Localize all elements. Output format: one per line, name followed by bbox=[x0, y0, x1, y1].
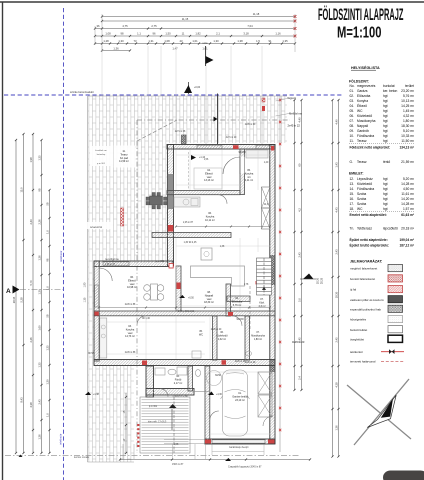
svg-text:4,40: 4,40 bbox=[297, 117, 301, 123]
svg-text:vasbeton pillér és koszorú: vasbeton pillér és koszorú bbox=[350, 298, 384, 302]
ramp continuation lines bbox=[122, 444, 124, 459]
red wall accent stair base bbox=[121, 208, 124, 226]
terrace annotation texts bbox=[90, 146, 113, 166]
svg-text:3,18: 3,18 bbox=[243, 32, 249, 36]
svg-text:1,46 p 301 1,61: 1,46 p 301 1,61 bbox=[178, 311, 195, 313]
property line horizontal (telekhatar) bbox=[4, 94, 344, 96]
svg-text:1,38: 1,38 bbox=[237, 39, 243, 43]
svg-text:28,35: 28,35 bbox=[321, 277, 324, 284]
right dimension chain outer bbox=[332, 100, 334, 457]
car in garage bbox=[221, 370, 250, 436]
garage glazing panels bbox=[258, 372, 272, 394]
top dimension chain bbox=[94, 12, 296, 51]
interior wall dining south bbox=[167, 191, 240, 195]
chimney stub bbox=[182, 135, 187, 145]
red accent step wall bbox=[142, 361, 147, 366]
svg-text:1,36: 1,36 bbox=[334, 425, 338, 431]
wall right exterior bbox=[270, 145, 275, 444]
red accent garage corner L bbox=[205, 440, 211, 444]
svg-text:tervezett határvonal: tervezett határvonal bbox=[350, 360, 376, 364]
svg-text:1,38: 1,38 bbox=[220, 246, 225, 248]
svg-text:Gardrób: Gardrób bbox=[357, 129, 369, 133]
garage door opening bbox=[212, 440, 265, 443]
sheet left border bbox=[2, 2, 4, 480]
svg-text:p.m 301: p.m 301 bbox=[97, 163, 106, 165]
svg-text:1,01: 1,01 bbox=[192, 39, 198, 43]
door opening kitchen east wall bbox=[240, 157, 244, 174]
svg-text:16.: 16. bbox=[350, 197, 355, 201]
dashed line under stairs bbox=[249, 286, 251, 330]
svg-text:+1,10: +1,10 bbox=[199, 156, 206, 159]
svg-text:FÖLDSZINT:: FÖLDSZINT: bbox=[349, 78, 369, 83]
svg-text:5,70: 5,70 bbox=[29, 280, 33, 286]
svg-text:hgt: hgt bbox=[383, 114, 388, 118]
svg-text:Terasz: Terasz bbox=[357, 160, 367, 164]
svg-text:10,11 m²: 10,11 m² bbox=[205, 219, 215, 222]
svg-text:WC: WC bbox=[199, 333, 203, 336]
svg-text:23,20 m²: 23,20 m² bbox=[401, 89, 415, 93]
svg-text:tetőkontúr: tetőkontúr bbox=[350, 350, 363, 354]
svg-text:14.: 14. bbox=[350, 187, 355, 191]
garage turning circle bbox=[207, 371, 222, 386]
svg-text:hgt: hgt bbox=[383, 109, 388, 113]
svg-text:8,43: 8,43 bbox=[19, 397, 23, 403]
svg-text:Épület nettó alapterülete:: Épület nettó alapterülete: bbox=[350, 237, 388, 242]
svg-text:Lépcsőház: Lépcsőház bbox=[357, 177, 373, 181]
svg-text:1,30: 1,30 bbox=[118, 39, 124, 43]
svg-text:4x71 in 20: 4x71 in 20 bbox=[226, 137, 237, 139]
svg-text:2,17 m²: 2,17 m² bbox=[174, 382, 183, 385]
svg-text:burkolt felület: burkolt felület bbox=[350, 328, 367, 332]
svg-text:kisablak vm: kisablak vm bbox=[95, 150, 107, 152]
svg-text:Étkező: Étkező bbox=[357, 103, 367, 108]
svg-text:4,32 m²: 4,32 m² bbox=[403, 114, 415, 118]
svg-text:utca: utca bbox=[203, 41, 208, 45]
svg-text:134,13 m²: 134,13 m² bbox=[399, 145, 414, 149]
svg-text:2,1: 2,1 bbox=[216, 32, 220, 36]
svg-text:Tetőterasz: Tetőterasz bbox=[357, 226, 372, 230]
wall bottom-left of house bbox=[94, 360, 275, 366]
red accent hall bbox=[228, 312, 233, 316]
svg-text:Vejpont: Vejpont bbox=[287, 96, 296, 100]
door arc left room bbox=[99, 268, 112, 281]
svg-text:2,43: 2,43 bbox=[37, 399, 41, 405]
svg-text:18,30: 18,30 bbox=[317, 277, 320, 284]
svg-text:ker.völgd ma: ker.völgd ma bbox=[105, 258, 119, 261]
svg-text:WC: WC bbox=[357, 109, 363, 113]
svg-text:04.: 04. bbox=[350, 104, 355, 108]
svg-text:új fal: új fal bbox=[350, 288, 356, 292]
svg-text:hgt: hgt bbox=[383, 197, 388, 201]
red dashed mark on ramp bbox=[137, 424, 139, 426]
svg-text:2,43: 2,43 bbox=[29, 219, 33, 225]
svg-text:1,08: 1,08 bbox=[105, 32, 111, 36]
svg-text:No.: No. bbox=[350, 84, 355, 88]
svg-text:1,0: 1,0 bbox=[45, 286, 49, 290]
interior wall kitchen south bbox=[152, 233, 231, 238]
svg-text:2x71 in 08: 2x71 in 08 bbox=[175, 131, 186, 133]
svg-text:Garázs: Garázs bbox=[357, 89, 368, 93]
north arrow cross lines bbox=[354, 379, 409, 445]
svg-text:1,35: 1,35 bbox=[45, 345, 49, 351]
svg-text:Fürdőszoba: Fürdőszoba bbox=[357, 134, 374, 138]
svg-text:4,38: 4,38 bbox=[29, 402, 33, 408]
svg-text:90/238: 90/238 bbox=[238, 152, 246, 154]
dining centerline dashed bbox=[188, 152, 190, 190]
svg-text:meglévő falszerkezet: meglévő falszerkezet bbox=[350, 267, 377, 271]
svg-text:1,1: 1,1 bbox=[137, 32, 141, 36]
svg-text:1,90: 1,90 bbox=[84, 282, 87, 287]
svg-text:1,28: 1,28 bbox=[103, 39, 109, 43]
svg-text:1,35: 1,35 bbox=[37, 155, 41, 161]
dining chairs circles bbox=[144, 285, 151, 292]
svg-text:Garázskapu beépít: Garázskapu beépít bbox=[229, 446, 249, 449]
svg-text:1,16: 1,16 bbox=[275, 32, 281, 36]
svg-text:4,75: 4,75 bbox=[122, 24, 128, 28]
svg-text:2x45 in 29: 2x45 in 29 bbox=[235, 361, 246, 363]
site boundary south dashdot bbox=[5, 454, 300, 456]
exterior ramp stairs bbox=[140, 397, 190, 453]
svg-text:+0,00: +0,00 bbox=[194, 86, 201, 89]
svg-text:Szoba: Szoba bbox=[357, 202, 366, 206]
svg-text:2,26: 2,26 bbox=[29, 337, 33, 343]
svg-text:EMELET:: EMELET: bbox=[349, 172, 364, 176]
roof overhang dashed vertical bbox=[136, 120, 138, 453]
svg-text:15.: 15. bbox=[350, 192, 355, 196]
svg-text:M=1:100: M=1:100 bbox=[337, 22, 382, 41]
level marker near terrace top bbox=[188, 82, 190, 94]
red accent band wall bbox=[222, 360, 227, 365]
svg-text:06.: 06. bbox=[350, 114, 355, 118]
svg-text:Szoba: Szoba bbox=[357, 197, 366, 201]
svg-text:1,50: 1,50 bbox=[165, 32, 171, 36]
terrace paving hatch left patch bbox=[88, 143, 167, 263]
svg-text:1,35: 1,35 bbox=[37, 362, 41, 368]
red accent top right wall bbox=[262, 98, 265, 102]
ramp side dimension bbox=[125, 393, 127, 453]
red accent top wall middle bbox=[233, 145, 239, 149]
door arc kitchen bbox=[137, 316, 146, 325]
entry level arrow bbox=[191, 155, 196, 160]
svg-text:1,35: 1,35 bbox=[282, 39, 288, 43]
witness drops through hatch bbox=[175, 96, 177, 144]
svg-text:5,76 m²: 5,76 m² bbox=[233, 304, 242, 307]
left dimension chain bbox=[12, 133, 51, 454]
staircase interior bbox=[257, 258, 272, 295]
terrace paving hatch left strip bbox=[88, 263, 95, 366]
svg-text:11,61 m²: 11,61 m² bbox=[401, 192, 415, 196]
wall left upper dark segment bbox=[168, 174, 174, 209]
stub wall near stairs bbox=[227, 296, 250, 302]
svg-text:43: 43 bbox=[180, 39, 183, 43]
bath fixtures bbox=[155, 368, 165, 375]
svg-text:13.: 13. bbox=[350, 182, 355, 186]
svg-text:21,59 m²: 21,59 m² bbox=[401, 160, 415, 164]
svg-text:hgt: hgt bbox=[383, 99, 388, 103]
svg-text:Földszint nettó alapterület:: Földszint nettó alapterület: bbox=[350, 145, 391, 149]
svg-text:11,15: 11,15 bbox=[182, 17, 189, 21]
kitchen counter lower room bbox=[100, 318, 107, 358]
svg-text:61,63 m²: 61,63 m² bbox=[401, 213, 414, 217]
svg-text:03.: 03. bbox=[350, 99, 355, 103]
svg-text:hgt: hgt bbox=[383, 129, 388, 133]
sheet top border bbox=[0, 1, 424, 3]
interior dim line lower bbox=[99, 307, 270, 309]
witness drops to plan bbox=[101, 46, 103, 96]
svg-text:2,75: 2,75 bbox=[151, 24, 157, 28]
window sill top 2 bbox=[256, 145, 274, 148]
svg-text:Szoba: Szoba bbox=[357, 192, 366, 196]
door arc dining bbox=[218, 195, 227, 204]
svg-text:átm.mélt. 17x16,5: átm.mélt. 17x16,5 bbox=[148, 421, 167, 424]
svg-text:2,43: 2,43 bbox=[334, 249, 338, 255]
svg-text:hgt: hgt bbox=[383, 124, 388, 128]
svg-text:15,0: 15,0 bbox=[19, 187, 23, 193]
svg-text:11,18: 11,18 bbox=[253, 12, 260, 16]
svg-text:23,10 m²: 23,10 m² bbox=[235, 399, 245, 402]
svg-text:60/90: 60/90 bbox=[215, 375, 221, 377]
door arc hall bbox=[232, 316, 242, 326]
svg-text:28,35: 28,35 bbox=[12, 296, 16, 303]
svg-text:JELMAGYARÁZAT:: JELMAGYARÁZAT: bbox=[350, 258, 382, 263]
svg-text:lépcsőtető: lépcsőtető bbox=[383, 226, 398, 230]
svg-text:73: 73 bbox=[134, 39, 137, 43]
svg-text:p.m 301: p.m 301 bbox=[156, 261, 165, 263]
level marker bottom terrace bbox=[85, 392, 91, 395]
svg-text:A: A bbox=[6, 288, 11, 295]
svg-text:14,73 m²: 14,73 m² bbox=[125, 335, 135, 338]
svg-text:2x45 in 29: 2x45 in 29 bbox=[245, 362, 256, 364]
svg-text:10,98 m²: 10,98 m² bbox=[127, 286, 137, 289]
svg-text:5,0: 5,0 bbox=[297, 298, 301, 302]
svg-text:burkolat: burkolat bbox=[383, 84, 395, 88]
svg-text:1,57 m²: 1,57 m² bbox=[403, 207, 415, 211]
svg-text:5,76 m²: 5,76 m² bbox=[403, 94, 415, 98]
svg-text:17.: 17. bbox=[350, 202, 355, 206]
svg-text:1,36: 1,36 bbox=[37, 434, 41, 440]
svg-text:expandált polisztirol hab: expandált polisztirol hab bbox=[350, 307, 381, 311]
wall bottom exterior / garage front bbox=[205, 439, 275, 444]
svg-text:hgt: hgt bbox=[383, 94, 388, 98]
svg-text:2x45 in 88: 2x45 in 88 bbox=[125, 304, 136, 306]
svg-text:1,30: 1,30 bbox=[213, 39, 219, 43]
svg-text:1,08: 1,08 bbox=[164, 39, 170, 43]
interior wall living south bbox=[94, 311, 275, 316]
svg-text:Terasz: Terasz bbox=[357, 139, 367, 143]
terrace dining furniture bbox=[146, 193, 167, 209]
svg-text:02.: 02. bbox=[350, 94, 355, 98]
svg-text:90 58: 90 58 bbox=[88, 353, 94, 355]
garage level marker bbox=[208, 392, 214, 396]
glazing X panels east wall bbox=[262, 187, 271, 208]
dining table top room bbox=[194, 168, 222, 189]
svg-text:tervezett fal: tervezett fal bbox=[90, 226, 102, 229]
svg-text:telekhatár: telekhatár bbox=[59, 250, 63, 262]
svg-text:10.: 10. bbox=[350, 134, 355, 138]
section line entrance axis bbox=[217, 94, 219, 145]
svg-text:hgt: hgt bbox=[383, 192, 388, 196]
svg-text:1,30: 1,30 bbox=[45, 379, 49, 385]
svg-text:1,0: 1,0 bbox=[45, 230, 49, 234]
svg-text:2x45 in 60: 2x45 in 60 bbox=[245, 124, 256, 126]
svg-text:10,13 m²: 10,13 m² bbox=[401, 99, 415, 103]
svg-text:kerítés vonala: kerítés vonala bbox=[74, 456, 90, 459]
interior wall kitchen east bbox=[240, 149, 245, 195]
bathroom wall vertical bbox=[146, 366, 154, 397]
svg-text:36: 36 bbox=[97, 24, 100, 28]
svg-text:Közlekedő: Közlekedő bbox=[357, 182, 372, 186]
svg-text:2x45 in 20: 2x45 in 20 bbox=[211, 329, 222, 331]
garage apron bbox=[212, 445, 264, 452]
svg-text:10,33 m²: 10,33 m² bbox=[401, 134, 415, 138]
interior wall garage west bbox=[205, 366, 210, 444]
svg-text:0x45 in 23: 0x45 in 23 bbox=[292, 340, 305, 344]
svg-text:hgt: hgt bbox=[383, 134, 388, 138]
svg-text:Mell.fal ms: Mell.fal ms bbox=[289, 112, 302, 116]
svg-text:1,56: 1,56 bbox=[204, 159, 209, 161]
svg-text:1,68: 1,68 bbox=[174, 444, 179, 446]
svg-text:betonlap: betonlap bbox=[97, 153, 106, 156]
svg-text:2,4: 2,4 bbox=[297, 376, 301, 380]
svg-text:1,36: 1,36 bbox=[113, 46, 119, 50]
svg-text:terület: terület bbox=[405, 84, 414, 88]
svg-text:üvegfelület: üvegfelület bbox=[350, 337, 364, 341]
svg-text:2,26: 2,26 bbox=[37, 219, 41, 225]
svg-text:18,30 m²: 18,30 m² bbox=[204, 301, 214, 304]
svg-text:hőszigetelés: hőszigetelés bbox=[350, 318, 367, 322]
svg-text:Konyha: Konyha bbox=[357, 99, 368, 103]
svg-text:hgt: hgt bbox=[383, 202, 388, 206]
svg-text:ker. beton: ker. beton bbox=[383, 89, 397, 93]
svg-text:hgt: hgt bbox=[383, 207, 388, 211]
svg-text:megnevezés: megnevezés bbox=[357, 84, 376, 88]
svg-text:96: 96 bbox=[153, 32, 156, 36]
svg-text:1,80 m²: 1,80 m² bbox=[254, 338, 262, 341]
wall wc east bbox=[213, 316, 218, 360]
svg-text:HELYISÉGLISTA: HELYISÉGLISTA bbox=[351, 65, 380, 70]
svg-text:187,12 m²: 187,12 m² bbox=[399, 244, 414, 248]
svg-text:1,31: 1,31 bbox=[148, 39, 154, 43]
svg-text:7,04: 7,04 bbox=[247, 24, 253, 28]
terrace paving hatch bottom left bbox=[88, 366, 134, 462]
window sill top 1 bbox=[197, 145, 222, 148]
witness lines interior bbox=[175, 150, 177, 190]
roof overhang dashed horizontal bbox=[137, 119, 290, 121]
top chain red end markers bbox=[294, 15, 297, 18]
wall step horizontal bbox=[94, 261, 173, 267]
svg-text:+4,36: +4,36 bbox=[216, 394, 223, 396]
svg-text:hgt: hgt bbox=[383, 187, 388, 191]
level marker nappali bbox=[179, 295, 185, 298]
svg-text:11,59 m²: 11,59 m² bbox=[119, 160, 129, 163]
wall right dark segments bbox=[270, 255, 275, 285]
svg-text:91: 91 bbox=[269, 39, 272, 43]
wc fixture small bbox=[246, 351, 252, 356]
terrace paving hatch top band bbox=[88, 96, 287, 143]
svg-text:08.: 08. bbox=[350, 124, 355, 128]
svg-text:1,36: 1,36 bbox=[37, 255, 41, 261]
svg-text:szürke betonzsalukő: szürke betonzsalukő bbox=[70, 90, 94, 94]
svg-text:hgt: hgt bbox=[383, 139, 388, 143]
svg-text:1,82: 1,82 bbox=[195, 32, 201, 36]
interior dim line upper bbox=[176, 226, 270, 228]
leader lines right labels bbox=[276, 99, 288, 102]
window sill left lower bbox=[95, 285, 99, 307]
svg-text:2,43: 2,43 bbox=[297, 252, 301, 258]
svg-text:4,32 m²: 4,32 m² bbox=[218, 338, 226, 341]
svg-text:5,20 m²: 5,20 m² bbox=[403, 177, 415, 181]
svg-text:hgt: hgt bbox=[383, 119, 388, 123]
svg-text:20,18 m²: 20,18 m² bbox=[401, 226, 415, 230]
svg-text:1,0: 1,0 bbox=[45, 413, 49, 417]
svg-text:Tn.: Tn. bbox=[350, 226, 355, 230]
svg-text:+1,38: +1,38 bbox=[93, 394, 100, 396]
svg-text:4,43: 4,43 bbox=[334, 207, 338, 213]
svg-text:1,80 m²: 1,80 m² bbox=[403, 119, 415, 123]
svg-text:1,45 m²: 1,45 m² bbox=[403, 109, 415, 113]
svg-text:Épület bruttó alapterülete:: Épület bruttó alapterülete: bbox=[350, 243, 390, 248]
witness verticals top chain bbox=[101, 14, 103, 52]
svg-text:hgt: hgt bbox=[383, 104, 388, 108]
svg-text:1,60: 1,60 bbox=[37, 325, 41, 331]
right dimension chain inner bbox=[294, 100, 296, 390]
svg-text:17x16,5 = 2,80: 17x16,5 = 2,80 bbox=[172, 396, 188, 398]
svg-text:14,8: 14,8 bbox=[264, 204, 269, 206]
red accent left wall bottom bbox=[94, 312, 98, 316]
svg-text:199,04 m²: 199,04 m² bbox=[399, 238, 414, 242]
roof overhang dashed diagonal bbox=[137, 120, 177, 141]
red accent top right corner bbox=[271, 146, 274, 151]
svg-text:18,30 m²: 18,30 m² bbox=[401, 124, 415, 128]
svg-text:90/238: 90/238 bbox=[236, 319, 244, 321]
svg-text:1,47: 1,47 bbox=[172, 46, 178, 50]
wc fixture bbox=[195, 370, 200, 377]
door arc garage side bbox=[210, 411, 219, 420]
svg-text:Közlekedő: Közlekedő bbox=[357, 114, 372, 118]
svg-text:18,30: 18,30 bbox=[334, 291, 338, 298]
ramp direction arrow bbox=[169, 404, 177, 408]
svg-text:5,28: 5,28 bbox=[19, 297, 23, 303]
svg-text:11: 11 bbox=[182, 32, 185, 36]
paving edge line bbox=[87, 96, 89, 462]
bottom dim line bbox=[120, 459, 310, 461]
interior wall etkezo-nappali bbox=[176, 266, 181, 311]
svg-text:Emelet nettó alapterület:: Emelet nettó alapterület: bbox=[350, 213, 387, 217]
svg-text:Fürdőszoba: Fürdőszoba bbox=[357, 187, 374, 191]
svg-text:05.: 05. bbox=[350, 109, 355, 113]
counter right room bbox=[246, 150, 268, 158]
ui button bottom right bbox=[383, 471, 424, 480]
svg-text:G.: G. bbox=[350, 160, 354, 164]
svg-text:2,45 in 87: 2,45 in 87 bbox=[183, 222, 194, 224]
svg-text:18.: 18. bbox=[350, 207, 355, 211]
svg-text:14,20 m²: 14,20 m² bbox=[401, 197, 415, 201]
svg-text:1,40: 1,40 bbox=[264, 162, 269, 164]
svg-text:5,10 m²: 5,10 m² bbox=[403, 129, 415, 133]
dining table left room bbox=[151, 284, 158, 300]
red accent stairs base bbox=[256, 281, 260, 284]
svg-text:90 1,46: 90 1,46 bbox=[142, 318, 150, 320]
red column step wall bbox=[169, 264, 173, 269]
property line vertical (telekhatar) bbox=[63, 8, 65, 480]
svg-text:01.: 01. bbox=[350, 89, 355, 93]
svg-text:telekhatár: telekhatár bbox=[59, 433, 63, 445]
svg-text:4,38: 4,38 bbox=[334, 382, 338, 388]
svg-text:1,98: 1,98 bbox=[29, 157, 33, 163]
svg-text:1,30 90 2,45: 1,30 90 2,45 bbox=[184, 242, 197, 244]
svg-text:4,2: 4,2 bbox=[297, 208, 301, 212]
svg-text:hgt: hgt bbox=[383, 182, 388, 186]
